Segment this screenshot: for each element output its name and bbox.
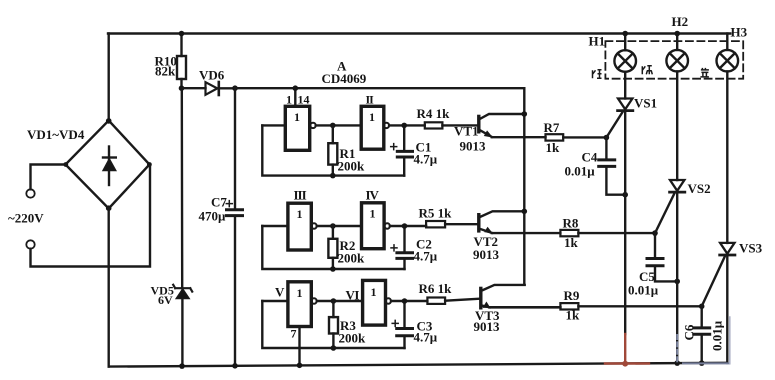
svg-text:IV: IV [366,188,380,203]
svg-text:R8: R8 [563,216,579,231]
svg-text:4.7μ: 4.7μ [414,330,438,345]
svg-text:VT1: VT1 [454,124,479,139]
svg-text:C6: C6 [682,324,697,340]
svg-text:6V: 6V [158,293,173,307]
svg-text:R4 1k: R4 1k [417,106,451,121]
svg-text:C7: C7 [211,195,227,210]
node VT2 collector [522,209,528,215]
resistor R8 1k [560,230,655,236]
svg-text:R5 1k: R5 1k [419,206,453,221]
svg-text:~220V: ~220V [8,211,44,226]
node C2 top [402,223,408,229]
wire gate III out to gate IV in [317,225,362,227]
node C5 return [674,279,680,285]
resistor R4 1k [425,122,479,128]
svg-text:14: 14 [298,93,310,107]
wire VS1 gate diagonal [606,112,622,138]
svg-text:9013: 9013 [460,139,487,154]
wire gate III input [262,225,288,227]
node H1 tap [622,31,628,37]
lamp H3 [717,34,739,72]
node C6 ground [699,360,705,366]
capacitor C2 4.7u [391,226,413,269]
label blue lamp (CJK glyph substitute) [700,68,709,77]
node C4 return [622,192,628,198]
op-amp gate III (inverter) [288,203,317,250]
node bridge top vertex [106,118,112,124]
svg-text:7: 7 [291,327,297,341]
terminal AC bottom [26,240,34,248]
lamp group dashed box [605,41,743,79]
capacitor C7 470u [226,88,242,366]
node R10 top [179,31,185,37]
svg-text:0.01μ: 0.01μ [565,164,596,179]
op-amp gate IV (inverter) [362,203,390,249]
wire VS2 cathode blue dashes [676,335,678,362]
svg-text:4.7μ: 4.7μ [414,152,438,167]
svg-text:VI: VI [346,288,360,303]
terminal AC top [26,189,34,197]
transistor VT3 9013 [481,285,561,308]
svg-text:VD6: VD6 [199,68,225,83]
capacitor C6 0.01u [694,306,710,363]
resistor R10 82k [177,34,186,89]
capacitor C1 4.7u [391,125,413,175]
node VD6 cathode [232,85,238,91]
wire gate IV out [390,225,426,227]
node pin7 ground [297,363,303,369]
resistor R6 1k [427,298,478,304]
node osc1 mid [330,123,336,129]
node C3 top [402,298,408,304]
label red lamp (CJK glyph substitute) [593,70,602,79]
svg-text:VS1: VS1 [634,96,657,111]
node VS1 gate [604,135,610,141]
wire VS2 gate diagonal [655,194,674,233]
svg-text:VS2: VS2 [688,181,711,196]
wire gate VI out [391,300,427,302]
wire gate V pin 7 to ground [298,327,300,366]
svg-text:0.01μ: 0.01μ [628,283,659,298]
svg-text:CD4069: CD4069 [322,71,367,86]
node VD5 ground [179,363,185,369]
svg-text:III: III [294,188,307,203]
wire AC neutral to bridge right [31,166,151,267]
wire gate V input [262,300,288,302]
wire top supply rail [108,32,730,34]
node R10 bottom / VD6 anode [179,85,185,91]
svg-text:1: 1 [286,93,292,107]
svg-text:1k: 1k [546,140,561,155]
node R1 bottom [330,173,336,179]
svg-text:9013: 9013 [474,319,501,334]
svg-text:1: 1 [369,110,375,124]
node C1 top [401,123,407,129]
wire osc3 feedback [262,301,404,348]
resistor R9 1k [560,303,701,309]
resistor R5 1k [426,221,479,227]
capacitor C5 0.01u [647,233,677,281]
wire VS1 cathode lower (red ink) [624,334,626,364]
wire osc2 feedback [262,226,404,269]
lamp H1 [614,34,636,72]
thyristor VS3 [720,72,735,363]
node VS1 ground [622,361,628,367]
transistor VT2 9013 [479,211,561,233]
op-amp U1B gate II (inverter) [361,106,389,149]
svg-text:R9: R9 [564,288,580,303]
op-amp gate VI (inverter) [363,280,391,325]
resistor R3 200k [329,301,338,348]
node osc2 mid [330,223,336,229]
node VS2 gate [652,230,658,236]
svg-text:82k: 82k [155,64,176,79]
wire VS3 blue ghost line [729,317,731,363]
transistor VT1 9013 [479,114,546,137]
resistor R7 1k [546,134,607,140]
svg-text:200k: 200k [338,251,366,266]
resistor R1 200k [328,125,337,175]
node H2 tap [674,31,680,37]
thyristor VS2 [670,72,685,364]
svg-text:0.01μ: 0.01μ [710,320,725,351]
svg-text:1k: 1k [566,308,581,323]
node VS3 gate [699,304,705,310]
capacitor C4 0.01u [599,138,626,195]
wire top-left drop to bridge [107,34,109,122]
op-amp gate V (inverter) [288,282,317,327]
wire AC live to bridge left [31,165,66,190]
svg-text:R7: R7 [544,120,560,135]
svg-text:4.7μ: 4.7μ [414,249,438,264]
svg-text:R6 1k: R6 1k [419,281,453,296]
wire gate I pin stub [294,88,296,106]
wire gate V out to gate VI in [317,300,363,302]
svg-text:1: 1 [371,285,377,299]
node VS2 ground [674,360,680,366]
wire gate II out [389,124,425,126]
node R3 bottom [331,345,337,351]
thyristor VS1 [618,72,633,334]
wire ground rail red segment [605,362,649,364]
wire gate I input [262,124,285,126]
op-amp U1A gate I (inverter) [285,106,315,150]
zener diode VD5 6V [173,88,192,366]
svg-text:1: 1 [297,207,303,221]
node osc3 mid [331,298,337,304]
wire VS3 gate diagonal [702,257,725,307]
svg-text:VS3: VS3 [739,241,763,256]
svg-text:200k: 200k [338,159,366,174]
node pin-14 tap [293,85,299,91]
lamp H2 [666,34,688,72]
node bridge left vertex [63,162,68,167]
svg-text:470μ: 470μ [199,209,227,224]
svg-text:1: 1 [370,207,376,221]
node bridge right vertex [147,162,152,167]
wire gate I out to gate II in [316,124,362,126]
resistor R2 200k [328,226,337,269]
node bridge bottom vertex [106,205,112,211]
capacitor C3 4.7u [392,301,412,348]
diode VD6 [182,82,236,95]
svg-text:H2: H2 [672,14,689,29]
svg-text:9013: 9013 [473,247,500,262]
svg-text:1: 1 [297,286,303,300]
bridge rectifier VD1~VD4 [66,121,150,209]
node VT1 collector [522,111,528,117]
svg-text:200k: 200k [339,331,367,346]
node C7 bottom [232,363,238,369]
wire osc1 feedback left [262,125,404,175]
svg-text:1k: 1k [564,235,579,250]
wire VDD rail to CD4069 and collectors [235,88,524,285]
svg-text:C4: C4 [582,150,598,165]
wire bridge bottom to ground rail [107,209,109,367]
node R2 bottom [330,266,336,272]
label green lamp (CJK glyph substitute) [642,66,652,75]
wire bottom ground rail [109,363,728,367]
wire ground rail blue segment [683,362,730,364]
svg-text:VD1~VD4: VD1~VD4 [27,127,85,142]
svg-text:1: 1 [294,110,300,124]
svg-text:H1: H1 [589,34,606,49]
svg-text:H3: H3 [731,25,748,40]
svg-text:V: V [275,285,285,300]
